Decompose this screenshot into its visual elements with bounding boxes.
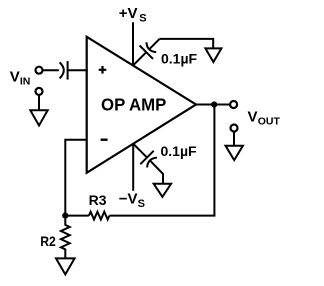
terminal VOUT return	[231, 125, 238, 132]
wire +VS supply	[132, 22, 134, 66]
svg-text:0.1µF: 0.1µF	[161, 143, 198, 159]
terminal VIN	[36, 67, 43, 74]
node output junction	[211, 101, 217, 107]
svg-text:V: V	[10, 69, 20, 86]
svg-text:OP AMP: OP AMP	[101, 95, 167, 115]
wire bottom bypass diagonal ground side	[150, 160, 163, 183]
svg-text:−V: −V	[119, 191, 138, 208]
ground R2	[56, 258, 75, 274]
wire bottom bypass diagonal supply side	[133, 144, 147, 158]
wire top bypass diagonal supply side	[133, 52, 146, 65]
svg-text:S: S	[138, 198, 145, 210]
ground top bypass	[205, 48, 221, 62]
ground bottom bypass	[154, 184, 171, 197]
svg-text:IN: IN	[20, 76, 31, 88]
resistor R3	[89, 212, 109, 220]
wire top bypass horizontal to ground	[160, 39, 214, 49]
ground output	[226, 146, 243, 160]
power −VS label	[119, 191, 145, 210]
power +VS label	[119, 5, 147, 24]
wire feedback vertical	[213, 105, 215, 216]
wire −VS supply	[132, 144, 134, 191]
wire R3 to node A	[64, 215, 89, 217]
wire C1 to noninverting input	[68, 69, 88, 71]
op-amp U1 noninverting + marker	[99, 66, 107, 74]
wire VIN return to ground	[38, 95, 40, 110]
VOUT label	[248, 109, 281, 128]
svg-text:R3: R3	[89, 192, 107, 208]
wire VIN to C1	[43, 69, 59, 71]
VIN label	[10, 69, 31, 88]
terminal VOUT	[230, 101, 237, 108]
wire top bypass diagonal ground side	[149, 39, 159, 49]
capacitor C3 bypass bottom	[140, 151, 157, 168]
svg-text:0.1µF: 0.1µF	[161, 50, 198, 66]
svg-text:OUT: OUT	[258, 116, 281, 128]
svg-text:R2: R2	[40, 233, 56, 249]
op-amp U1 inverting − marker	[101, 138, 108, 140]
capacitor C2 bypass top	[140, 42, 157, 59]
resistor R2	[61, 216, 70, 259]
capacitor C1 input coupling	[60, 61, 68, 80]
wire node A to inverting input	[65, 140, 86, 216]
svg-text:+V: +V	[119, 5, 138, 22]
ground input	[30, 110, 47, 125]
svg-text:S: S	[139, 13, 146, 25]
node A junction	[62, 213, 68, 219]
terminal VIN return	[36, 88, 43, 95]
wire VOUT return to ground	[233, 132, 235, 146]
svg-text:V: V	[248, 109, 258, 126]
wire output	[196, 104, 230, 106]
op-amp U1	[87, 37, 196, 173]
wire feedback bottom horizontal	[109, 215, 215, 217]
